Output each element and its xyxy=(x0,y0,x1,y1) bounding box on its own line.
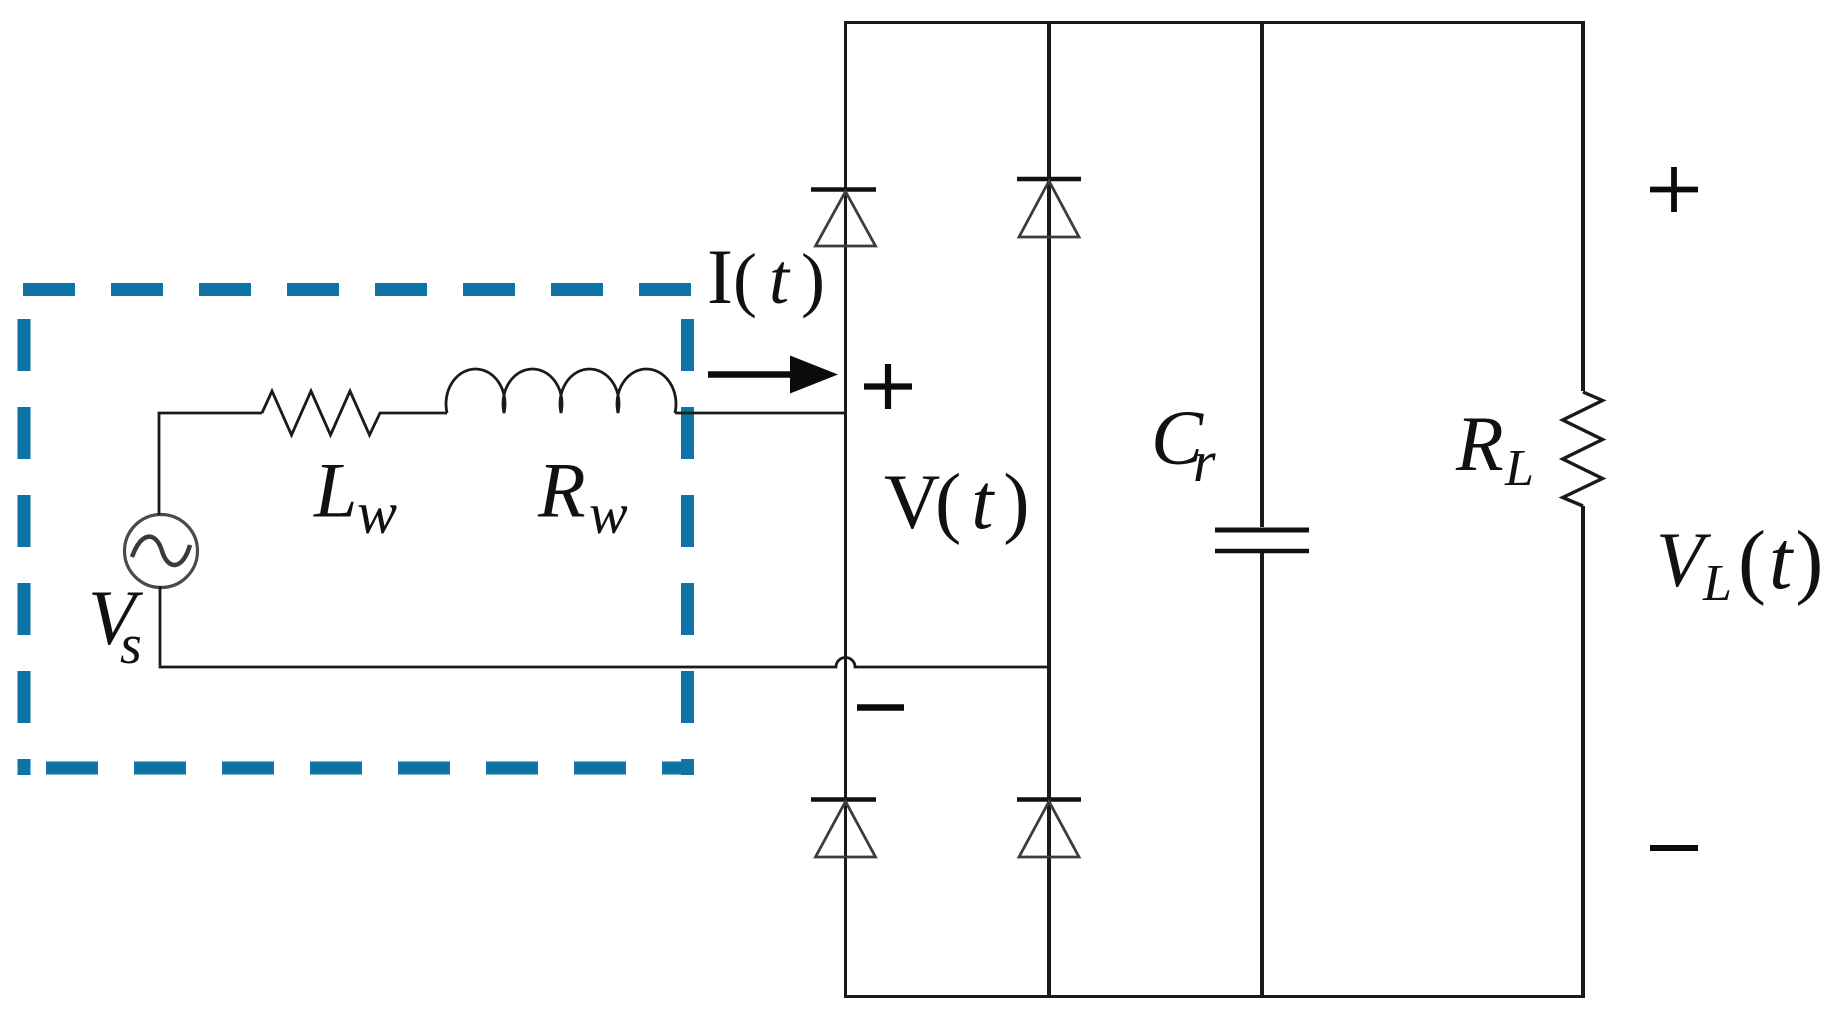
bridge branch B2 xyxy=(1047,21,1051,996)
diode D3 (bottom left) xyxy=(811,800,876,858)
svg-text:(t): (t) xyxy=(1738,514,1826,607)
resistor Lw (zigzag) xyxy=(262,391,447,435)
dashed source box xyxy=(23,283,694,775)
svg-text:w: w xyxy=(357,480,397,546)
svg-text:L: L xyxy=(1702,555,1732,612)
svg-text:L: L xyxy=(1504,440,1534,497)
bottom rail xyxy=(844,995,1585,998)
diode D2 (top right) xyxy=(1017,179,1081,237)
diode D1 (top left) xyxy=(811,190,876,247)
svg-text:r: r xyxy=(1193,429,1216,494)
svg-text:R: R xyxy=(1455,400,1504,487)
top rail xyxy=(844,21,1585,24)
plus (load, top right) xyxy=(1650,167,1698,212)
svg-text:L: L xyxy=(313,447,357,534)
svg-text:(t): (t) xyxy=(733,239,837,319)
resistor RL (vertical zigzag) xyxy=(1563,392,1603,506)
wire: source bottom lead xyxy=(159,586,162,666)
bridge branch B1 xyxy=(844,21,847,996)
load branch B4 xyxy=(1581,21,1585,391)
current arrow xyxy=(708,371,793,378)
plus (bridge input) xyxy=(864,364,912,409)
capacitor Cr plates xyxy=(1215,528,1309,533)
svg-text:I: I xyxy=(707,233,733,320)
svg-text:(t): (t) xyxy=(935,459,1040,546)
wire: source top lead xyxy=(159,413,262,515)
AC source Vs xyxy=(125,515,198,588)
minus (load, bottom right) xyxy=(1650,845,1698,851)
wire: bottom of source loop with hop over B1 xyxy=(159,658,1049,668)
inductor Rw (4 humps) xyxy=(446,369,676,413)
svg-text:w: w xyxy=(589,481,628,546)
wire: inductor to bridge xyxy=(675,412,844,415)
diode D4 (bottom right) xyxy=(1017,800,1081,858)
capacitor branch B3 xyxy=(1260,21,1264,527)
svg-text:s: s xyxy=(120,614,142,676)
minus (bridge input) xyxy=(857,704,904,711)
svg-text:V: V xyxy=(884,458,940,545)
svg-text:R: R xyxy=(537,447,586,534)
